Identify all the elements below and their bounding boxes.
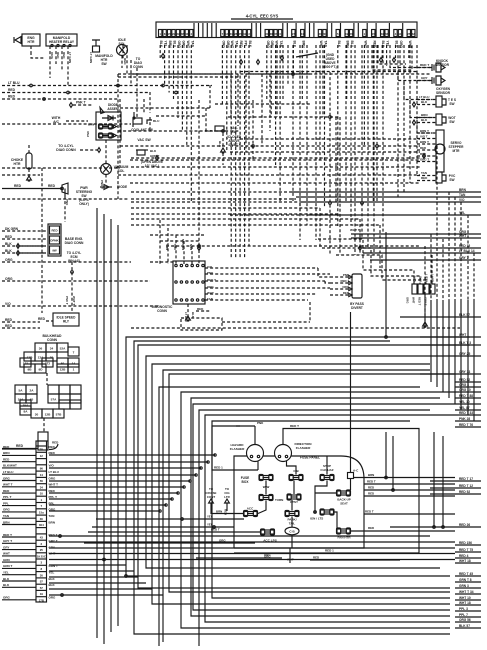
svg-text:TAN: TAN xyxy=(421,171,427,175)
svg-text:BRN: BRN xyxy=(49,520,56,524)
svg-text:1: 1 xyxy=(40,498,42,502)
junction dots on left feeds xyxy=(30,84,33,87)
svg-text:5: 5 xyxy=(337,32,339,36)
svg-text:52A: 52A xyxy=(60,346,66,350)
svg-text:RED: RED xyxy=(49,489,56,493)
svg-text:VAC SW: VAC SW xyxy=(137,138,151,142)
svg-text:1: 1 xyxy=(73,367,75,371)
svg-text:GRY T: GRY T xyxy=(3,539,12,543)
ground below 4-pin connector xyxy=(424,294,426,322)
svg-text:12B: 12B xyxy=(60,367,66,371)
svg-text:RED: RED xyxy=(3,489,10,493)
svg-text:FAN: FAN xyxy=(207,297,213,301)
svg-text:WITHA/C: WITHA/C xyxy=(52,116,61,124)
svg-text:RED 1: RED 1 xyxy=(214,466,223,470)
svg-text:BASE ENG.DIAG CONN: BASE ENG.DIAG CONN xyxy=(65,237,84,245)
svg-text:RED: RED xyxy=(313,556,319,560)
svg-text:RED: RED xyxy=(368,526,374,530)
svg-text:RED: RED xyxy=(421,176,428,180)
svg-text:FUSEBOX: FUSEBOX xyxy=(241,476,250,484)
svg-text:4: 4 xyxy=(191,32,193,36)
svg-text:RED: RED xyxy=(62,52,66,59)
svg-text:RED 1: RED 1 xyxy=(325,549,334,553)
svg-text:RED T 17: RED T 17 xyxy=(459,477,473,481)
valve BY PASS DIVERT xyxy=(352,274,362,298)
arrow terminals cruise and cig xyxy=(209,499,214,503)
wire below grid B xyxy=(43,418,45,432)
svg-text:BLK: BLK xyxy=(218,141,222,148)
fuse PARK TAIL xyxy=(286,512,299,516)
svg-text:BLK: BLK xyxy=(3,583,10,587)
svg-text:WHT: WHT xyxy=(207,291,214,295)
connector BASE ENG DIAG CONN xyxy=(48,224,61,256)
wire bundle bends to sensors xyxy=(390,45,432,68)
svg-text:BLU: BLU xyxy=(153,119,160,123)
svg-text:2: 2 xyxy=(40,542,42,546)
svg-text:ORG 3: ORG 3 xyxy=(459,383,469,387)
svg-text:YEL 87: YEL 87 xyxy=(459,406,470,410)
svg-text:ACC: ACC xyxy=(247,507,254,511)
solenoid VACUUM SOL xyxy=(101,164,112,175)
svg-text:LT BLU 14: LT BLU 14 xyxy=(459,249,475,253)
svg-text:56: 56 xyxy=(40,479,44,483)
svg-text:C-B: C-B xyxy=(289,530,295,534)
svg-text:CHOKEHTR: CHOKEHTR xyxy=(11,158,24,166)
wire dashed left riser x42 xyxy=(41,168,43,313)
svg-text:RED: RED xyxy=(343,291,349,295)
svg-text:TURN: TURN xyxy=(275,498,283,502)
svg-text:OXYGENSENSOR: OXYGENSENSOR xyxy=(436,87,451,95)
svg-text:GRY 13: GRY 13 xyxy=(459,370,470,374)
wire A-C down to backup xyxy=(350,479,352,491)
svg-text:RED: RED xyxy=(123,58,127,65)
svg-text:9W: 9W xyxy=(52,249,57,253)
svg-text:BLK: BLK xyxy=(421,100,428,104)
svg-text:TOCRUISECONT: TOCRUISECONT xyxy=(206,487,217,499)
svg-text:A-C: A-C xyxy=(353,469,359,473)
svg-text:28: 28 xyxy=(234,32,238,36)
diode D1 in diode assembly xyxy=(102,117,116,119)
bulkhead connector main column xyxy=(36,441,47,602)
svg-text:19 25C: 19 25C xyxy=(37,555,47,559)
svg-text:ORG: ORG xyxy=(3,476,11,480)
svg-text:36: 36 xyxy=(385,32,389,36)
dashed box below diagnostic conn xyxy=(181,318,222,330)
svg-text:DPNK: DPNK xyxy=(50,239,59,243)
wire vertical into BRN junction xyxy=(385,432,387,478)
svg-text:4: 4 xyxy=(395,32,397,36)
svg-text:WHT T: WHT T xyxy=(3,483,13,487)
fuse BACK-UP SEAT xyxy=(337,491,350,495)
svg-text:DK GRN: DK GRN xyxy=(181,239,185,250)
wire CTSY to PARK TAIL xyxy=(291,500,293,511)
svg-text:7: 7 xyxy=(73,350,75,354)
svg-text:57B: 57B xyxy=(56,412,62,416)
svg-text:WHT 18: WHT 18 xyxy=(459,601,471,605)
svg-text:RED T: RED T xyxy=(425,273,429,282)
motor SERVO STEPPER MTR xyxy=(436,130,444,172)
svg-text:ORG: ORG xyxy=(3,596,11,600)
wire stop fuse to IGN LTS xyxy=(315,481,327,514)
svg-text:T E SSW: T E SSW xyxy=(448,98,456,106)
svg-text:WHT 10: WHT 10 xyxy=(459,596,471,600)
svg-text:22: 22 xyxy=(172,32,176,36)
svg-text:RED: RED xyxy=(368,492,374,496)
svg-text:BLK T 3: BLK T 3 xyxy=(459,341,471,345)
arrow terminals under pins xyxy=(162,54,165,59)
svg-text:RED: RED xyxy=(52,441,59,445)
svg-text:WHT: WHT xyxy=(412,297,416,304)
svg-text:30: 30 xyxy=(40,573,44,577)
svg-text:65: 65 xyxy=(30,397,34,401)
svg-text:DK GRN: DK GRN xyxy=(5,227,19,231)
svg-text:57: 57 xyxy=(40,580,44,584)
svg-text:V/O: V/O xyxy=(207,265,213,269)
right edge wire labels xyxy=(290,191,481,193)
svg-text:GRN T: GRN T xyxy=(3,564,13,568)
svg-text:BY PASSDIVERT: BY PASSDIVERT xyxy=(350,302,364,310)
svg-text:V/O: V/O xyxy=(459,198,465,202)
svg-text:RED 4: RED 4 xyxy=(459,554,469,558)
svg-text:36: 36 xyxy=(39,346,43,350)
svg-text:96: 96 xyxy=(40,467,44,471)
switch VAC SW middle closed above 4in xyxy=(214,130,226,132)
svg-text:5A: 5A xyxy=(19,388,24,392)
svg-text:8: 8 xyxy=(164,32,166,36)
wire W-W to TURN xyxy=(265,481,267,495)
svg-text:BLK 57: BLK 57 xyxy=(459,313,470,317)
svg-text:BULKHEADCONN: BULKHEADCONN xyxy=(42,334,62,342)
svg-text:VACUUMSOL: VACUUMSOL xyxy=(114,165,129,173)
svg-text:31: 31 xyxy=(265,32,269,36)
svg-text:25: 25 xyxy=(407,32,411,36)
svg-text:IDLE SPEEDRLY: IDLE SPEEDRLY xyxy=(57,316,77,324)
svg-text:13A: 13A xyxy=(38,355,44,359)
svg-text:RED: RED xyxy=(16,444,24,448)
svg-text:RED T: RED T xyxy=(290,424,299,428)
svg-text:(CLOSEDABOVE4"VAC.): (CLOSEDABOVE4"VAC.) xyxy=(227,135,242,147)
svg-text:8A: 8A xyxy=(24,409,29,413)
svg-text:FUSE PANEL: FUSE PANEL xyxy=(300,456,320,460)
svg-text:GRN: GRN xyxy=(3,558,10,562)
wire verticals to RED 26 xyxy=(433,432,435,527)
svg-text:LT GRN: LT GRN xyxy=(89,52,93,64)
wire A-C feed from above xyxy=(350,312,352,473)
svg-text:BLK: BLK xyxy=(5,242,12,246)
svg-text:WHT: WHT xyxy=(459,234,466,238)
svg-text:PNK T: PNK T xyxy=(100,180,104,189)
svg-text:RED: RED xyxy=(5,318,13,322)
wire C-B to CTSY xyxy=(293,481,295,495)
svg-text:TAN: TAN xyxy=(49,514,55,518)
svg-text:RED: RED xyxy=(48,184,56,188)
svg-text:10: 10 xyxy=(40,492,44,496)
svg-text:11: 11 xyxy=(399,32,402,36)
svg-text:BRN: BRN xyxy=(189,244,193,250)
svg-text:34: 34 xyxy=(50,346,54,350)
svg-text:LT BLU: LT BLU xyxy=(3,470,13,474)
svg-text:PNK T: PNK T xyxy=(65,296,69,305)
svg-text:4-CYL EEC SYS: 4-CYL EEC SYS xyxy=(246,14,279,19)
bottom-left corner wires to right edge xyxy=(49,454,215,456)
svg-text:BLK: BLK xyxy=(3,577,10,581)
svg-text:LT BLU: LT BLU xyxy=(8,81,20,85)
wire vertical into RED junction xyxy=(392,436,394,490)
svg-text:42: 42 xyxy=(243,32,247,36)
svg-text:LT GRN: LT GRN xyxy=(68,52,72,64)
svg-text:1: 1 xyxy=(364,32,366,36)
junction dots upper mesh xyxy=(292,73,295,76)
fuse CTSY xyxy=(288,495,301,499)
wire mesh horizontals upper middle xyxy=(118,73,310,75)
svg-text:WOTSW: WOTSW xyxy=(448,116,455,124)
svg-text:PNK: PNK xyxy=(207,271,214,275)
svg-text:WHT: WHT xyxy=(3,552,10,556)
svg-text:MANIFOLDHTRSW: MANIFOLDHTRSW xyxy=(95,54,113,66)
svg-text:ORG: ORG xyxy=(50,52,54,60)
svg-text:RED: RED xyxy=(8,88,16,92)
wire stop fuse top xyxy=(326,456,328,475)
svg-text:TO 4-CYLDIAG CONN: TO 4-CYLDIAG CONN xyxy=(56,144,76,152)
wire direction flasher to C-B xyxy=(287,461,297,475)
svg-text:RED T 76: RED T 76 xyxy=(459,423,473,427)
svg-text:(GNDUSEDABOVE4000 FT.): (GNDUSEDABOVE4000 FT.) xyxy=(323,53,336,69)
svg-text:BLK: BLK xyxy=(191,312,195,318)
svg-text:34: 34 xyxy=(40,485,44,489)
svg-text:ORG: ORG xyxy=(49,596,57,600)
svg-text:RED 52: RED 52 xyxy=(459,490,470,494)
wire mesh verticals upper middle xyxy=(130,60,132,85)
arrow into ENG HTR xyxy=(15,37,21,44)
svg-text:RED: RED xyxy=(3,458,10,462)
relay MANIFOLD HEATER RELAY xyxy=(46,34,77,46)
svg-text:LT BLU: LT BLU xyxy=(49,470,59,474)
svg-text:BRN: BRN xyxy=(368,473,374,477)
svg-text:YEL 10: YEL 10 xyxy=(459,400,470,404)
svg-text:BLK: BLK xyxy=(421,118,428,122)
svg-text:RED T: RED T xyxy=(3,533,12,537)
svg-text:15A: 15A xyxy=(23,403,29,407)
svg-text:RED 1: RED 1 xyxy=(340,279,349,283)
svg-text:304: 304 xyxy=(39,523,44,527)
svg-text:6: 6 xyxy=(279,32,281,36)
svg-text:ORG: ORG xyxy=(5,258,13,262)
wire CB oval down xyxy=(291,535,293,548)
svg-text:21: 21 xyxy=(230,32,234,36)
svg-text:BLK/WHT: BLK/WHT xyxy=(3,464,17,468)
svg-text:32: 32 xyxy=(412,32,416,36)
svg-text:30: 30 xyxy=(323,32,327,36)
svg-text:GRY: GRY xyxy=(49,545,55,549)
right bundle solid continuations xyxy=(430,300,432,382)
svg-text:RED T 45: RED T 45 xyxy=(459,572,473,576)
wire vacuum sol up xyxy=(105,140,107,164)
svg-text:19: 19 xyxy=(40,592,44,596)
svg-text:RED: RED xyxy=(38,317,46,321)
svg-text:29: 29 xyxy=(176,32,180,36)
wire backup seat left xyxy=(315,492,337,494)
svg-text:DIODEASSEM: DIODEASSEM xyxy=(107,103,119,111)
svg-text:57A: 57A xyxy=(51,397,57,401)
svg-text:PPL: PPL xyxy=(3,501,9,505)
svg-text:RED T: RED T xyxy=(211,528,220,532)
arrow terminals BLK BLK xyxy=(17,244,20,249)
connector small below grids xyxy=(38,432,48,450)
junction dots bottom area xyxy=(59,535,62,538)
svg-text:RED 52: RED 52 xyxy=(459,378,470,382)
connector DIAGNOSTIC CONN xyxy=(173,261,205,304)
svg-text:DIAGNOSTICCONN: DIAGNOSTICCONN xyxy=(152,305,173,313)
fuse W-W xyxy=(260,476,273,480)
svg-text:8: 8 xyxy=(40,567,42,571)
bulkhead connector grid A xyxy=(35,343,46,352)
svg-text:ACC LPS: ACC LPS xyxy=(263,539,277,543)
svg-text:ORG: ORG xyxy=(207,285,215,289)
svg-text:ORG: ORG xyxy=(173,244,177,250)
svg-text:MANIFOLDHEATER RELAY: MANIFOLDHEATER RELAY xyxy=(49,36,75,44)
ground below VAC SW xyxy=(221,148,226,152)
bulkhead connector grid B xyxy=(15,385,26,394)
arrow PNK T into diode assembly xyxy=(70,103,73,108)
svg-text:PWRSTEERINGSW(4-CYLONLY): PWRSTEERINGSW(4-CYLONLY) xyxy=(76,186,93,206)
svg-text:PNK: PNK xyxy=(257,421,264,425)
wire RED curve at connector top xyxy=(49,444,58,450)
svg-text:BLK: BLK xyxy=(49,583,56,587)
svg-text:RED T 75: RED T 75 xyxy=(459,548,473,552)
svg-text:PPL T: PPL T xyxy=(3,495,12,499)
svg-text:RED 26: RED 26 xyxy=(459,523,470,527)
svg-text:RED: RED xyxy=(5,235,13,239)
svg-text:PPL 3: PPL 3 xyxy=(459,607,468,611)
svg-text:29: 29 xyxy=(381,32,385,36)
svg-text:PVCSW: PVCSW xyxy=(449,174,456,182)
svg-text:V/O: V/O xyxy=(5,302,11,306)
svg-text:PNK 28: PNK 28 xyxy=(459,417,470,421)
wire ENG HTR down xyxy=(30,46,32,52)
wire solid riser x386 xyxy=(385,232,387,337)
svg-text:7: 7 xyxy=(222,32,224,36)
svg-text:7B: 7B xyxy=(39,448,43,452)
fuse C-B upper xyxy=(290,476,303,480)
svg-text:C-B: C-B xyxy=(293,469,299,473)
svg-text:27: 27 xyxy=(292,32,296,36)
svg-text:3: 3 xyxy=(248,32,250,36)
switch MANIFOLD HTR SW symbol xyxy=(92,40,100,46)
svg-text:23: 23 xyxy=(318,32,322,36)
fuse FAN HTR xyxy=(337,529,350,533)
fuse IGN LTS xyxy=(321,510,334,514)
arrow above diagnostic conn xyxy=(198,246,201,251)
svg-text:GRN T 8: GRN T 8 xyxy=(459,578,472,582)
svg-text:WHT: WHT xyxy=(459,333,466,337)
switch COOLANT SW xyxy=(133,112,152,127)
svg-text:RED T: RED T xyxy=(365,510,374,514)
svg-text:12B: 12B xyxy=(45,412,51,416)
svg-text:PNK T: PNK T xyxy=(76,101,86,105)
svg-text:RED: RED xyxy=(197,307,204,311)
svg-text:36: 36 xyxy=(181,32,185,36)
svg-text:RED: RED xyxy=(5,324,13,328)
svg-text:RED: RED xyxy=(51,229,57,233)
svg-text:35: 35 xyxy=(239,32,243,36)
svg-text:ORG: ORG xyxy=(406,297,410,303)
svg-text:WHT 18: WHT 18 xyxy=(459,559,471,563)
svg-text:RED: RED xyxy=(165,244,169,250)
svg-text:WHT T: WHT T xyxy=(72,296,76,305)
svg-text:GRY: GRY xyxy=(421,76,429,80)
nested wire loops from ECM to bulkhead xyxy=(126,337,470,576)
svg-text:BLK 57: BLK 57 xyxy=(459,624,470,628)
svg-text:12D: 12D xyxy=(27,355,33,359)
svg-text:YEL: YEL xyxy=(207,523,213,527)
svg-text:VAC.SW: VAC.SW xyxy=(230,126,238,134)
svg-text:9B: 9B xyxy=(28,367,33,371)
svg-text:RED: RED xyxy=(368,486,374,490)
svg-text:ORG: ORG xyxy=(3,508,11,512)
svg-text:TO 4-CYLECMPIN #43: TO 4-CYLECMPIN #43 xyxy=(67,251,82,263)
svg-text:RED T: RED T xyxy=(367,480,376,484)
svg-text:BACK-UPSEAT: BACK-UPSEAT xyxy=(337,498,350,506)
svg-text:RED T: RED T xyxy=(418,297,422,306)
svg-text:LT BLU: LT BLU xyxy=(419,95,429,99)
svg-text:30: 30 xyxy=(40,517,44,521)
fuse TURN xyxy=(260,496,273,500)
wire IGN to FAN HTR xyxy=(334,512,337,528)
svg-text:RED T 33: RED T 33 xyxy=(459,411,473,415)
svg-text:ORG: ORG xyxy=(219,539,226,543)
svg-text:PNK: PNK xyxy=(86,130,90,137)
wire from base eng conn down xyxy=(71,262,73,312)
breaker C-B oval xyxy=(285,527,299,535)
dashed corners above bypass divert xyxy=(318,239,414,284)
svg-text:BRN: BRN xyxy=(3,451,10,455)
svg-text:TODIAGCONN: TODIAGCONN xyxy=(133,57,143,69)
svg-text:RED: RED xyxy=(3,445,10,449)
svg-text:ORG 10: ORG 10 xyxy=(459,388,471,392)
fuse panel outline xyxy=(234,456,364,548)
diode D3 xyxy=(100,186,112,188)
svg-text:RED T: RED T xyxy=(420,63,429,67)
svg-text:TAN: TAN xyxy=(3,514,9,518)
wire bulkhead A to B xyxy=(46,373,48,385)
svg-text:GRY 7: GRY 7 xyxy=(459,256,469,260)
svg-text:14: 14 xyxy=(225,32,229,36)
svg-text:HAZARDFLASHER: HAZARDFLASHER xyxy=(230,443,245,451)
svg-text:15a: 15a xyxy=(39,511,44,515)
svg-text:RED: RED xyxy=(8,95,16,99)
svg-text:TAN: TAN xyxy=(459,193,466,197)
svg-text:RED 15: RED 15 xyxy=(459,244,470,248)
dashed junction box under right pins xyxy=(372,45,412,70)
svg-text:YEL: YEL xyxy=(207,515,213,519)
svg-text:57: 57 xyxy=(40,586,44,590)
switch PWR STEERING SW xyxy=(62,183,68,194)
svg-text:BLK: BLK xyxy=(5,249,12,253)
connector 4-pin right xyxy=(412,284,417,294)
svg-text:RED: RED xyxy=(14,184,22,188)
svg-text:19A: 19A xyxy=(18,397,24,401)
svg-text:38: 38 xyxy=(270,32,274,36)
relay pin dots xyxy=(51,44,53,46)
wire from dashed box right xyxy=(222,321,310,323)
svg-text:14: 14 xyxy=(72,361,76,365)
svg-text:50: 50 xyxy=(61,361,65,365)
ECM connector pin boxes xyxy=(159,30,162,37)
svg-text:1: 1 xyxy=(159,32,161,36)
svg-text:WHT T: WHT T xyxy=(49,483,59,487)
wires from ECM pins (dashed verticals) xyxy=(159,45,161,58)
fuse ACC LPS xyxy=(261,530,274,534)
